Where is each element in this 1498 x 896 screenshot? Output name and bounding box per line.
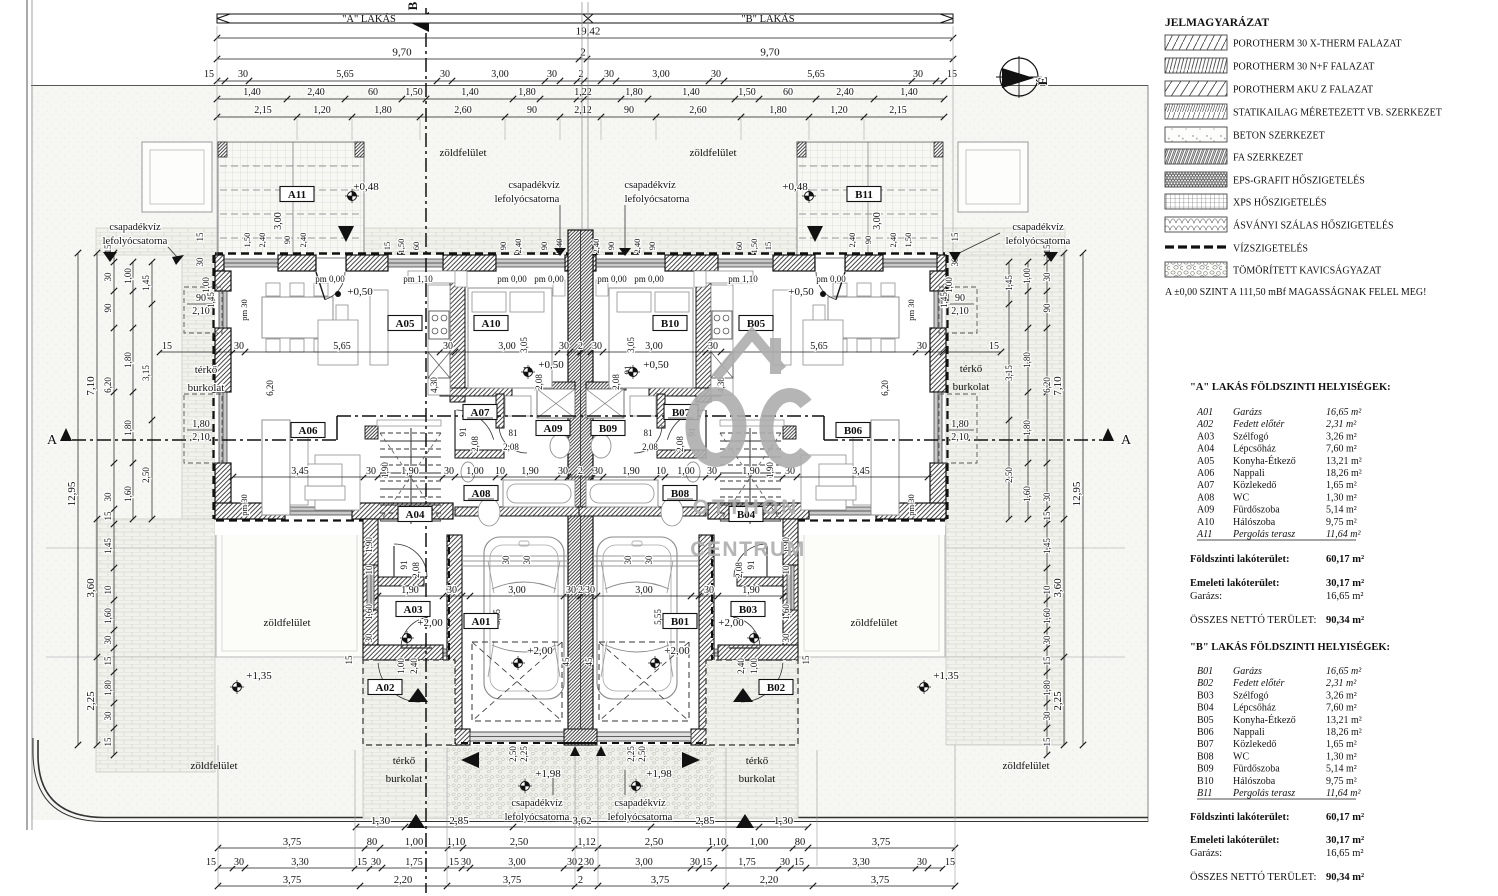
insulation dashes right wall — [946, 255, 948, 519]
svg-text:10: 10 — [1042, 585, 1052, 595]
svg-text:30: 30 — [592, 341, 602, 352]
svg-text:lefolyócsatorna: lefolyócsatorna — [608, 812, 673, 823]
svg-text:30: 30 — [559, 341, 569, 352]
svg-text:B08: B08 — [671, 488, 690, 500]
svg-text:30: 30 — [1042, 492, 1052, 502]
svg-text:60: 60 — [734, 242, 744, 251]
room label B01 — [663, 614, 697, 629]
svg-text:1,60: 1,60 — [123, 486, 133, 502]
svg-text:5,14 m²: 5,14 m² — [1326, 764, 1357, 775]
exterior wall top (hatched) — [215, 255, 224, 271]
porch door A02 swing — [378, 663, 420, 702]
svg-text:+0,48: +0,48 — [353, 181, 379, 193]
garage A door track band — [462, 555, 568, 557]
svg-text:16,65 m²: 16,65 m² — [1326, 666, 1362, 677]
wall bottom living A — [215, 503, 285, 519]
legend item POROTHERM AKU Z FALAZAT — [1165, 81, 1227, 96]
svg-text:B07: B07 — [1197, 739, 1214, 750]
svg-text:Garázs:: Garázs: — [1190, 848, 1222, 859]
svg-text:B04: B04 — [1197, 703, 1214, 714]
svg-text:90: 90 — [282, 236, 292, 245]
legend item EPS-GRAFIT HŐSZIGETELÉS — [1165, 172, 1227, 187]
svg-text:12,95: 12,95 — [1071, 481, 1083, 506]
svg-text:3,75: 3,75 — [871, 875, 889, 886]
header bar A LAKAS / B LAKAS — [217, 14, 953, 23]
svg-text:91: 91 — [399, 561, 409, 570]
svg-text:2,08: 2,08 — [675, 436, 685, 452]
svg-text:2,08: 2,08 — [642, 442, 658, 452]
svg-text:Földszinti lakóterület:: Földszinti lakóterület: — [1190, 554, 1289, 565]
svg-text:2,40: 2,40 — [513, 239, 523, 254]
svg-text:1,90: 1,90 — [364, 537, 374, 553]
svg-text:térkő: térkő — [746, 755, 769, 767]
svg-text:9,75 m²: 9,75 m² — [1326, 776, 1357, 787]
site boundary left double — [26, 0, 28, 830]
svg-text:+0,50: +0,50 — [347, 286, 373, 298]
legend item TÖMÖRÍTETT KAVICSÁGYAZAT — [1165, 262, 1227, 277]
svg-text:OTTHON: OTTHON — [693, 496, 800, 519]
svg-text:16,65 m²: 16,65 m² — [1326, 407, 1362, 418]
room label A07 — [463, 405, 497, 420]
svg-text:2,08: 2,08 — [734, 562, 744, 578]
svg-text:pm 0,00: pm 0,00 — [816, 274, 846, 284]
svg-text:1,60: 1,60 — [1022, 486, 1032, 502]
svg-text:15: 15 — [950, 232, 960, 242]
interior dim row y596 — [378, 595, 783, 597]
svg-text:9,70: 9,70 — [392, 47, 412, 59]
svg-text:Fürdőszoba: Fürdőszoba — [1233, 505, 1280, 516]
svg-text:30: 30 — [103, 492, 113, 502]
sofa group B06 — [871, 420, 899, 515]
bottom extension lines — [217, 745, 219, 884]
room label B07 — [664, 405, 698, 420]
svg-text:Emeleti lakóterület:: Emeleti lakóterület: — [1190, 578, 1280, 589]
svg-text:16,65 m²: 16,65 m² — [1326, 848, 1364, 859]
extension stubs below top dims — [296, 119, 298, 140]
room label B04 — [729, 507, 763, 522]
interior dim row y477 — [233, 476, 928, 478]
svg-text:45: 45 — [584, 657, 594, 667]
svg-text:3,75: 3,75 — [283, 875, 301, 886]
svg-text:1,00: 1,00 — [944, 277, 954, 293]
svg-text:É: É — [1035, 77, 1050, 86]
svg-text:3,75: 3,75 — [283, 837, 301, 848]
interior walls B (B07/B08/B09) — [696, 271, 711, 402]
svg-text:3,45: 3,45 — [852, 466, 870, 477]
svg-text:A ±0,00 SZINT A 111,50 mBf MAG: A ±0,00 SZINT A 111,50 mBf MAGASSÁGNAK F… — [1165, 286, 1426, 298]
section line B-B vertical — [425, 8, 427, 893]
svg-text:15: 15 — [103, 656, 113, 666]
svg-text:3,00: 3,00 — [491, 69, 509, 80]
svg-text:30: 30 — [103, 272, 113, 282]
bed A10 — [468, 288, 552, 388]
svg-text:B: B — [405, 1, 420, 10]
svg-text:1,80: 1,80 — [951, 419, 969, 430]
left edge marker triangle — [103, 252, 117, 262]
svg-text:1,00: 1,00 — [749, 658, 759, 674]
svg-text:30: 30 — [558, 466, 568, 477]
svg-text:1,80: 1,80 — [123, 352, 133, 368]
room label A05 — [388, 316, 422, 331]
svg-text:90: 90 — [955, 293, 965, 304]
svg-text:pm 0,00: pm 0,00 — [315, 274, 345, 284]
svg-text:1,80: 1,80 — [192, 419, 210, 430]
arrow pergola B — [807, 226, 823, 242]
wall bottom living B — [876, 503, 946, 519]
svg-text:2,85: 2,85 — [449, 815, 469, 827]
svg-text:Nappali: Nappali — [1233, 468, 1265, 479]
right dims inner — [1046, 253, 1048, 755]
svg-text:1,10: 1,10 — [708, 837, 726, 848]
svg-text:1,80: 1,80 — [769, 105, 787, 116]
svg-text:WC: WC — [1233, 492, 1249, 503]
svg-text:3,05: 3,05 — [519, 337, 529, 353]
svg-text:15: 15 — [206, 857, 216, 868]
svg-text:zöldfelület: zöldfelület — [439, 147, 486, 159]
party wall (center, hatched dense) — [568, 230, 593, 745]
svg-text:+0,50: +0,50 — [788, 286, 814, 298]
svg-text:térkő: térkő — [393, 755, 416, 767]
arrow porch A left — [461, 752, 479, 768]
svg-text:pm 30: pm 30 — [239, 494, 249, 516]
svg-text:2: 2 — [580, 47, 586, 59]
svg-text:1,50: 1,50 — [738, 87, 756, 98]
svg-text:3,00: 3,00 — [652, 69, 670, 80]
svg-text:1,90: 1,90 — [380, 462, 390, 478]
svg-text:15: 15 — [801, 655, 811, 665]
svg-text:2,60: 2,60 — [689, 105, 707, 116]
svg-text:3,00: 3,00 — [273, 212, 284, 230]
svg-text:30: 30 — [103, 711, 113, 721]
porch B02 dashed outline — [706, 660, 798, 745]
svg-text:+0,50: +0,50 — [538, 359, 564, 371]
svg-text:térkő: térkő — [195, 364, 218, 376]
svg-text:A11: A11 — [1196, 529, 1212, 540]
svg-text:A06: A06 — [1197, 468, 1214, 479]
elev +0,50 A — [524, 368, 533, 377]
svg-text:"A" LAKÁS: "A" LAKÁS — [342, 13, 396, 25]
svg-text:Pergolás terasz: Pergolás terasz — [1232, 529, 1295, 540]
legend item ÁSVÁNYI SZÁLAS HŐSZIGETELÉS — [1165, 217, 1227, 232]
svg-text:pm 1,10: pm 1,10 — [728, 274, 758, 284]
svg-text:2,50: 2,50 — [645, 837, 663, 848]
svg-text:1,80: 1,80 — [625, 87, 643, 98]
svg-text:4,30: 4,30 — [429, 377, 439, 393]
svg-text:30: 30 — [440, 69, 450, 80]
svg-text:Fürdőszoba: Fürdőszoba — [1233, 764, 1280, 775]
room label A06 — [291, 423, 325, 438]
svg-text:lefolyócsatorna: lefolyócsatorna — [103, 236, 168, 247]
svg-text:1,65 m²: 1,65 m² — [1326, 739, 1357, 750]
svg-text:1,50: 1,50 — [903, 233, 913, 248]
svg-text:13,21 m²: 13,21 m² — [1326, 456, 1362, 467]
svg-text:30: 30 — [567, 857, 577, 868]
svg-text:81: 81 — [509, 428, 518, 438]
svg-text:+2,00: +2,00 — [417, 617, 443, 629]
svg-text:30: 30 — [547, 69, 557, 80]
svg-text:1,50: 1,50 — [749, 239, 759, 254]
room label B09 — [591, 421, 625, 436]
pergola terrace A11 — [218, 142, 364, 256]
svg-text:1,45: 1,45 — [206, 292, 216, 308]
svg-text:+1,35: +1,35 — [246, 670, 272, 682]
left dims inner — [113, 253, 115, 755]
svg-text:1,40: 1,40 — [682, 87, 700, 98]
svg-text:B08: B08 — [1197, 751, 1214, 762]
insulation dashes left wall — [212, 255, 214, 519]
svg-text:A02: A02 — [376, 682, 395, 694]
neighbour pad square right — [958, 142, 1028, 212]
party wall stub bottom — [564, 729, 597, 745]
svg-text:30: 30 — [708, 341, 718, 352]
dim row 9,70 / 9,70 — [217, 58, 953, 60]
svg-text:3,60: 3,60 — [85, 578, 97, 598]
elev +1,98 B — [632, 782, 641, 791]
svg-text:CENTRUM: CENTRUM — [690, 538, 806, 561]
svg-text:Lépcsőház: Lépcsőház — [1233, 444, 1276, 455]
svg-text:VÍZSZIGETELÉS: VÍZSZIGETELÉS — [1233, 243, 1308, 255]
svg-text:2,08: 2,08 — [411, 562, 421, 578]
wing A walls (A03/A04) — [363, 519, 378, 652]
svg-text:1,30 m²: 1,30 m² — [1326, 751, 1357, 762]
svg-text:81: 81 — [644, 428, 653, 438]
svg-text:2,08: 2,08 — [534, 374, 544, 390]
svg-text:B01: B01 — [1197, 666, 1213, 677]
svg-text:15: 15 — [449, 857, 459, 868]
svg-text:A05: A05 — [396, 318, 415, 330]
door A03 swing — [401, 617, 428, 648]
elev +2,00 garage B — [651, 659, 660, 668]
svg-text:2,15: 2,15 — [254, 105, 272, 116]
site background (telek) — [31, 85, 1148, 820]
wing B walls (B03/B04) — [783, 519, 798, 652]
svg-text:1,80: 1,80 — [123, 420, 133, 436]
svg-text:JELMAGYARÁZAT: JELMAGYARÁZAT — [1165, 15, 1269, 29]
post at living/stair corner B — [783, 426, 796, 439]
elev +1,35 left — [233, 683, 242, 692]
room label B05 — [739, 316, 773, 331]
svg-text:3,00: 3,00 — [645, 341, 663, 352]
north arrow — [1000, 58, 1038, 96]
svg-text:1,45: 1,45 — [141, 275, 151, 291]
svg-text:2,40: 2,40 — [591, 239, 601, 254]
svg-text:30: 30 — [781, 633, 791, 643]
bottom dim row 1 — [356, 826, 808, 828]
svg-text:1,90: 1,90 — [521, 466, 539, 477]
svg-text:3,30: 3,30 — [291, 857, 309, 868]
site boundary top — [31, 85, 1148, 87]
svg-text:POROTHERM 30 X-THERM FALAZAT: POROTHERM 30 X-THERM FALAZAT — [1233, 39, 1401, 50]
svg-text:1,00: 1,00 — [677, 466, 695, 477]
svg-text:pm 30: pm 30 — [239, 299, 249, 321]
svg-text:15: 15 — [763, 242, 773, 251]
svg-text:Fedett előtér: Fedett előtér — [1232, 678, 1284, 689]
svg-text:1,30 m²: 1,30 m² — [1326, 492, 1357, 503]
svg-text:csapadékvíz: csapadékvíz — [511, 798, 563, 809]
svg-text:30: 30 — [461, 857, 471, 868]
svg-text:WC: WC — [1233, 751, 1249, 762]
dim row 15/30/565/30/300/30/2 — [217, 80, 944, 82]
svg-text:30: 30 — [371, 857, 381, 868]
svg-text:2: 2 — [578, 857, 583, 868]
svg-text:"B" LAKÁS: "B" LAKÁS — [741, 13, 794, 25]
legend item BETON SZERKEZET — [1165, 127, 1227, 142]
svg-text:A03: A03 — [1197, 431, 1214, 442]
bed B10 — [609, 288, 693, 388]
svg-text:2,60: 2,60 — [454, 105, 472, 116]
garage B dashed apron — [599, 642, 689, 721]
svg-text:3,00: 3,00 — [872, 212, 883, 230]
wing A door to porch — [443, 649, 462, 656]
svg-text:+0,48: +0,48 — [782, 181, 808, 193]
svg-text:3,00: 3,00 — [635, 857, 653, 868]
svg-text:zöldfelület: zöldfelület — [263, 617, 310, 629]
svg-text:A10: A10 — [482, 318, 501, 330]
bottom dim row 4 — [218, 885, 955, 887]
car in garage A01 — [484, 537, 564, 699]
section marker A left — [60, 428, 72, 441]
room label B10 — [653, 316, 687, 331]
window right wall lower — [934, 392, 942, 463]
post at living/stair corner A — [365, 426, 378, 439]
room label B11 — [847, 187, 881, 202]
insulation dashes garage — [448, 535, 450, 744]
svg-text:2,50: 2,50 — [510, 837, 528, 848]
svg-text:2,85: 2,85 — [695, 815, 715, 827]
svg-text:+2,00: +2,00 — [664, 645, 690, 657]
svg-text:1,10: 1,10 — [447, 837, 465, 848]
svg-text:1,75: 1,75 — [738, 857, 756, 868]
svg-text:2,31 m²: 2,31 m² — [1326, 419, 1357, 430]
right edge marker triangle — [1044, 252, 1058, 262]
staircase A04 — [380, 432, 441, 434]
entrance door B swing — [816, 272, 836, 300]
svg-text:"A" LAKÁS FÖLDSZINTI HELYISÉGE: "A" LAKÁS FÖLDSZINTI HELYISÉGEK: — [1190, 380, 1391, 393]
svg-text:3,75: 3,75 — [503, 875, 521, 886]
door A09 swing — [499, 425, 527, 453]
section marker B top — [409, 12, 429, 32]
svg-text:STATIKAILAG MÉRETEZETT VB. SZE: STATIKAILAG MÉRETEZETT VB. SZERKEZET — [1233, 107, 1442, 119]
insulation dashes bottom walls — [216, 519, 377, 521]
svg-text:Konyha-Étkező: Konyha-Étkező — [1233, 714, 1296, 726]
svg-text:2,08: 2,08 — [611, 374, 621, 390]
svg-text:2,25: 2,25 — [1052, 691, 1064, 711]
svg-text:90: 90 — [624, 105, 634, 116]
garage B walls — [699, 535, 714, 745]
svg-text:90: 90 — [527, 105, 537, 116]
svg-text:burkolat: burkolat — [386, 773, 423, 785]
interior walls A (A07/A08/A09) — [450, 271, 465, 402]
dim total 19,42 — [217, 37, 953, 39]
svg-text:csapadékvíz: csapadékvíz — [1012, 222, 1064, 233]
svg-text:1,80: 1,80 — [103, 680, 113, 696]
svg-text:90: 90 — [863, 236, 873, 245]
svg-text:2: 2 — [578, 341, 583, 352]
svg-text:18,26 m²: 18,26 m² — [1326, 727, 1362, 738]
elev +0,48 A — [348, 192, 357, 201]
svg-text:15: 15 — [1042, 656, 1052, 666]
svg-text:lefolyócsatorna: lefolyócsatorna — [625, 194, 690, 205]
svg-text:A04: A04 — [406, 509, 425, 521]
svg-text:1,45: 1,45 — [1004, 275, 1014, 291]
svg-text:2,40: 2,40 — [298, 233, 308, 248]
svg-text:2: 2 — [578, 875, 583, 886]
room label A08 — [464, 486, 498, 501]
garage door B — [597, 732, 691, 741]
svg-text:2,40: 2,40 — [736, 658, 746, 674]
terrace door A (bottom wall) — [285, 507, 352, 515]
svg-text:1,20: 1,20 — [313, 105, 331, 116]
legend item STATIKAILAG MÉRETEZETT VB. SZERKEZET — [1165, 104, 1227, 119]
svg-text:30: 30 — [913, 69, 923, 80]
wing B window — [787, 565, 794, 610]
arrow pergola A — [338, 226, 354, 242]
svg-text:1,40: 1,40 — [900, 87, 918, 98]
svg-text:2: 2 — [579, 69, 584, 80]
svg-text:A: A — [47, 433, 58, 448]
svg-text:2: 2 — [578, 585, 583, 596]
svg-text:30: 30 — [444, 466, 454, 477]
svg-text:B03: B03 — [739, 604, 758, 616]
svg-text:pm 0,00: pm 0,00 — [534, 274, 564, 284]
svg-text:1,12: 1,12 — [577, 837, 595, 848]
bottom dim row 3 — [218, 867, 943, 869]
svg-text:A08: A08 — [472, 488, 491, 500]
svg-text:80: 80 — [795, 837, 806, 848]
paving right strip (terko burkolat) — [946, 240, 1065, 745]
svg-text:3,00: 3,00 — [508, 585, 526, 596]
svg-text:2,10: 2,10 — [192, 432, 210, 443]
insulation dashes top wall — [215, 252, 945, 254]
svg-text:1,50: 1,50 — [396, 239, 406, 254]
svg-text:90: 90 — [1042, 303, 1052, 313]
svg-text:2,40: 2,40 — [847, 233, 857, 248]
svg-text:30,17 m²: 30,17 m² — [1326, 578, 1364, 589]
elev +2,00 garage A — [514, 659, 523, 668]
svg-text:80: 80 — [367, 837, 378, 848]
elev +1,98 A — [521, 782, 530, 791]
window projection dashed boxes left — [184, 287, 222, 333]
svg-text:90: 90 — [539, 242, 549, 251]
armchair A bottom — [305, 486, 345, 500]
svg-text:POROTHERM 30 N+F FALAZAT: POROTHERM 30 N+F FALAZAT — [1233, 62, 1374, 73]
svg-text:A10: A10 — [1197, 517, 1214, 528]
svg-text:30: 30 — [1042, 635, 1052, 645]
door B09 swing — [634, 425, 662, 453]
svg-text:2,12: 2,12 — [574, 105, 592, 116]
arrows at bottom boundary — [407, 814, 425, 828]
room label A02 — [368, 680, 402, 695]
green terrace A (zoldfelulet box) — [216, 526, 363, 657]
svg-text:pm 1,10: pm 1,10 — [403, 274, 433, 284]
room label A11 — [280, 187, 314, 202]
svg-text:pm 0,00: pm 0,00 — [597, 274, 627, 284]
room label A03 — [396, 602, 430, 617]
svg-text:Közlekedő: Közlekedő — [1233, 480, 1276, 491]
svg-text:30: 30 — [711, 69, 721, 80]
wing B door to porch — [699, 649, 718, 656]
porch A02 dashed outline — [363, 660, 455, 745]
svg-text:1,45: 1,45 — [1042, 538, 1052, 554]
svg-text:Pergolás terasz: Pergolás terasz — [1232, 788, 1295, 799]
svg-text:91: 91 — [458, 428, 468, 437]
svg-text:2,25: 2,25 — [519, 746, 529, 762]
svg-text:B06: B06 — [1197, 727, 1214, 738]
exterior wall left A — [215, 271, 231, 291]
svg-text:1,50: 1,50 — [405, 87, 423, 98]
right dim 12,95 / 7,10 — [1082, 253, 1084, 745]
svg-text:XPS HŐSZIGETELÉS: XPS HŐSZIGETELÉS — [1233, 197, 1327, 209]
